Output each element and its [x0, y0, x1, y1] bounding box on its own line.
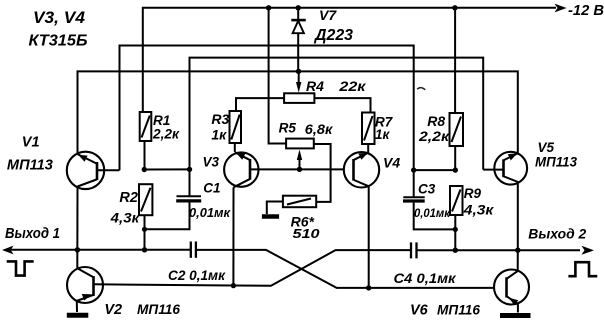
ground V6: [500, 313, 531, 318]
svg-text:МП116: МП116: [137, 301, 180, 317]
node R5 wiper arrow to base wire: [297, 150, 302, 173]
wire bus V1.base to C3 top: [120, 46, 414, 171]
node R4 wiper arrow from diode node: [296, 71, 301, 92]
svg-text:Выход 1: Выход 1: [5, 226, 60, 242]
svg-text:V1: V1: [22, 135, 40, 151]
capacitor C3: [403, 170, 455, 229]
node R8-R9 junction: [453, 167, 458, 172]
node V4 emitter junction: [366, 285, 371, 290]
resistor R4: [236, 93, 371, 112]
svg-text:C2 0,1мк: C2 0,1мк: [168, 267, 226, 283]
svg-text:Выход 2: Выход 2: [528, 226, 586, 242]
wire V5 collector down: [517, 182, 519, 250]
transistor V5: [483, 152, 527, 185]
transistor V4: [344, 152, 379, 187]
capacitor C2: [191, 242, 196, 258]
svg-text:0,01мк: 0,01мк: [414, 206, 451, 220]
node V1-V2 collector junction: [75, 247, 80, 252]
wire R1R2 node to C1 node: [144, 168, 189, 170]
node R2-C1 bottom junction: [142, 227, 147, 232]
svg-text:R4: R4: [306, 78, 324, 94]
svg-text:R3: R3: [211, 111, 229, 127]
svg-text:22к: 22к: [338, 78, 366, 94]
capacitor C4: [411, 242, 417, 258]
svg-text:4,3к: 4,3к: [463, 202, 495, 218]
ground V2: [67, 313, 89, 318]
wire V1 collector down to output node and V2 collector: [76, 187, 78, 269]
transistor V2: [67, 267, 103, 312]
svg-text:C1: C1: [203, 181, 220, 196]
svg-text:R5: R5: [279, 121, 297, 136]
node R9 bottom junction: [453, 248, 458, 253]
wire Vyhod1 line: [11, 249, 191, 251]
svg-text:1к: 1к: [211, 127, 227, 143]
svg-text:-12 В: -12 В: [568, 3, 604, 19]
diode V7: [291, 8, 306, 72]
svg-text:V4: V4: [383, 155, 400, 171]
transistor V6: [494, 250, 529, 312]
wire bus V1.emitter to V5.emitter: [78, 71, 518, 153]
node output2 pulse symbol: [568, 262, 597, 276]
svg-text:V2: V2: [104, 302, 122, 318]
resistor R9: [450, 186, 463, 250]
svg-text:4,3к: 4,3к: [110, 210, 141, 226]
node rail junction R5 left: [266, 5, 271, 10]
wire bus R1R2C1 node to V5.base: [190, 58, 484, 170]
svg-text:V3, V4: V3, V4: [33, 8, 86, 27]
svg-text:Д223: Д223: [313, 27, 353, 44]
node C3 bottom junction: [453, 227, 458, 232]
wire V4 collector down: [368, 186, 370, 288]
svg-text:МП116: МП116: [437, 302, 480, 318]
transistor V3: [224, 152, 258, 187]
wire C2 right to X crossing upper-left: [196, 250, 494, 288]
svg-text:1к: 1к: [375, 127, 391, 142]
resistor R3: [230, 111, 242, 152]
svg-text:2,2к: 2,2к: [418, 128, 450, 144]
resistor R8: [450, 8, 464, 170]
ground R6: [262, 214, 279, 218]
wire V3 base to V4 base: [251, 168, 345, 170]
svg-text:R9: R9: [464, 186, 482, 201]
wire V2 base to X crossing lower-left: [94, 250, 412, 286]
svg-text:V6: V6: [410, 303, 429, 319]
capacitor C1: [145, 169, 202, 229]
svg-text:R8: R8: [427, 113, 445, 129]
transistor V1: [67, 152, 120, 189]
node R1-R2 junction: [142, 167, 147, 172]
svg-text:МП113: МП113: [7, 157, 54, 174]
node V3 emitter junction on V2 base line: [231, 283, 236, 288]
wire Vyhod2 line with C4: [417, 249, 580, 251]
wire V3 collector down: [232, 187, 234, 285]
node V5-V6 collector junction: [515, 248, 520, 253]
svg-text:0,01мк: 0,01мк: [189, 206, 231, 220]
wire C3 node to R8R9 node: [414, 169, 456, 171]
resistor R2: [139, 184, 152, 250]
svg-text:МП113: МП113: [535, 154, 577, 170]
svg-text:C3: C3: [418, 182, 436, 197]
resistor R6: [267, 196, 316, 214]
node Vyhod2 arrow: [582, 246, 595, 255]
node rail junction R8: [452, 5, 457, 10]
resistor R7: [362, 113, 375, 153]
node emitter-bus junction V7 bottom: [296, 69, 301, 74]
resistor R1: [140, 112, 152, 170]
wire stray mark: [417, 88, 425, 90]
svg-text:V3: V3: [203, 155, 220, 170]
svg-text:C4 0,1мк: C4 0,1мк: [394, 270, 457, 286]
node Vyhod1 arrow: [2, 246, 14, 255]
svg-text:V7: V7: [319, 7, 337, 23]
node R2 bottom junction: [142, 247, 147, 252]
svg-text:2,2к: 2,2к: [152, 126, 180, 142]
node rail junction V7: [296, 5, 301, 10]
resistor R5 potentiometer: [269, 8, 331, 202]
node C3 top junction: [411, 167, 416, 172]
svg-text:510: 510: [293, 226, 321, 241]
svg-text:R2: R2: [119, 190, 138, 206]
node C1 top junction: [187, 167, 192, 172]
svg-text:КТ315Б: КТ315Б: [29, 33, 88, 50]
node -12V rail arrow: [555, 4, 567, 13]
node output1 pulse symbol: [7, 261, 34, 275]
wire -12V top rail: [143, 8, 556, 112]
svg-text:6,8к: 6,8к: [305, 121, 333, 137]
